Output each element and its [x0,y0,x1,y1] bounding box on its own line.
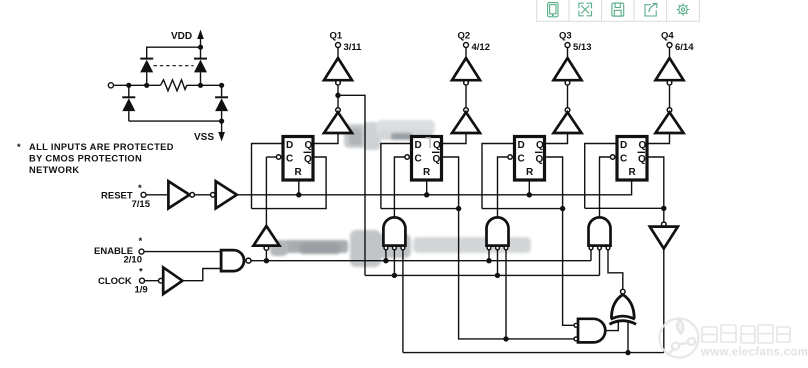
toolbar icon: settings gear [677,3,690,16]
inverter U3 (clock, input bubble) [159,278,164,283]
wire: between reset inverters [195,194,211,196]
wire: FF4 C input from AND3 [600,157,611,218]
svg-text:5/13: 5/13 [573,42,592,53]
svg-text:Q: Q [304,154,312,165]
node: rail junctions [126,83,224,88]
wire: FF3 R pin [528,182,530,195]
NAND gate U4 (clock/enable) [221,250,244,271]
AND gate G4 (horizontal, stage 4 logic) [574,319,605,343]
svg-text:Q: Q [433,140,441,151]
wire: FF3 Q output [546,133,568,144]
inverter U5 (clock to C1, points up) [253,226,279,261]
svg-text:D: D [620,140,627,151]
svg-text:C: C [286,153,293,164]
svg-text:BY CMOS PROTECTION: BY CMOS PROTECTION [29,154,142,164]
wire: CLOCK to inverter [145,280,159,282]
wire: input rail right [187,84,222,86]
wire: G2 input from clock line [488,250,490,261]
wire: FF4 Qbar output down [649,157,664,222]
node: FF3 toggle junction [560,206,565,211]
wire: XNOR lower input to bottom line [627,322,629,353]
svg-text:*: * [138,183,142,194]
flip-flop FF3 [508,137,545,181]
svg-text:1/9: 1/9 [135,285,148,296]
svg-text:*: * [17,142,21,152]
wire: FF1 R pin [298,182,300,195]
wire: ENABLE to NAND [144,251,221,253]
wire: VSS bottom rail [129,120,222,122]
erased watermark smudge lower [270,230,531,267]
wire: FF1 D input [252,144,282,209]
toolbar icon: tablet [548,3,558,17]
diode D4 (lower right) [215,85,228,121]
svg-text:Q1: Q1 [330,31,343,42]
toolbar cells [537,0,700,21]
node: VSS rail junction [219,119,224,124]
wire: FF4 Q output [649,133,670,144]
wire: FF4 D input [585,144,616,209]
output buffer column Q1 [324,31,362,134]
svg-text:Q3: Q3 [559,31,572,42]
wire: U6 output down to bottom line [663,249,665,353]
svg-text:Q: Q [639,140,647,151]
svg-text:R: R [295,167,303,178]
terminal RESET [141,192,146,197]
flip-flop FF4 [610,137,647,181]
svg-text:D: D [415,140,422,151]
svg-text:Q: Q [536,140,544,151]
svg-text:VSS: VSS [194,132,214,143]
svg-text:NETWORK: NETWORK [29,165,79,175]
wire: Q2 line down and across [459,209,574,339]
wire: FF3 toggle Qbar to D [482,157,563,209]
elecfans watermark text [702,325,790,343]
wire: bottom feedback line [403,352,664,354]
svg-text:RESET: RESET [101,190,133,201]
svg-text:C: C [415,153,422,164]
svg-text:D: D [286,140,293,151]
wire: RESET terminal to inverter [146,194,168,196]
inverter U2 (reset buffer 2) [211,193,216,198]
svg-text:C: C [518,153,525,164]
svg-text:CLOCK: CLOCK [98,276,132,287]
wire: G4 output to XNOR [605,320,618,331]
label RESET 7/15 [101,183,151,210]
wire: RESET distribution line [237,182,632,195]
protection network: input terminal [108,83,113,88]
toolbar icon: share/export [645,4,657,17]
node: clock junctions [264,258,492,263]
svg-text:*: * [139,236,143,247]
inverter U1 (reset buffer 1) [168,181,189,208]
svg-text:Q4: Q4 [661,31,674,42]
wire: G1 input from Q1 line [393,250,395,276]
wire: FF3 D input [482,144,513,209]
svg-text:D: D [518,140,525,151]
wire: clock inverter to NAND lower input [182,269,221,281]
label ENABLE 2/10 [94,236,143,265]
wire: FF2 C input from AND1 [394,157,405,218]
diode D2 (upper right) [194,59,207,86]
wire: G1 input from clock line [385,250,387,261]
svg-text:ALL INPUTS ARE PROTECTED: ALL INPUTS ARE PROTECTED [29,142,174,152]
node: Q2 line junction [503,336,508,341]
svg-text:3/11: 3/11 [344,42,363,53]
wire: FF2 Q output [443,133,466,144]
wire: FF1 Q output [315,133,339,144]
node: VDD rail junction [198,45,203,50]
wire: internal clock line [251,260,591,262]
toolbar icon: save floppy [612,3,624,16]
wire: VDD top rail [147,47,201,59]
wire: FF2 toggle Qbar to D [381,157,459,209]
svg-text:2/10: 2/10 [124,254,143,265]
svg-text:C: C [620,153,627,164]
node: FF2 toggle junction [456,206,461,211]
wire: FF4 toggle Qbar to D [585,207,664,209]
wire: Q3bar line down to AND-H [563,209,574,326]
wire: Q1 gating line [365,274,600,276]
svg-text:6/14: 6/14 [675,42,694,53]
AND gate G3 (stage 4 clock gate) [589,217,611,249]
svg-text:7/15: 7/15 [132,199,151,210]
output buffer column Q4 [656,31,695,134]
svg-text:R: R [629,167,637,178]
elecfans watermark logo [660,319,699,358]
erased watermark smudge upper [344,120,435,150]
note text: all inputs protected [17,142,174,175]
output buffer column Q3 [554,31,592,134]
inverter U6 (Q4bar, points down) [650,222,678,249]
wire: Q1 feedback down [338,95,365,275]
node: Q1 feedback tap [335,93,340,98]
output buffer column Q2 [452,31,490,134]
node: bottom line junction to XNOR [625,350,630,355]
svg-text:Q: Q [433,154,441,165]
node: FF4 toggle junction [661,206,666,211]
VSS arrow [221,121,223,133]
wire: FF1 C input [266,156,276,158]
wire: G1 input from bottom feedback line [402,250,404,353]
svg-text:R: R [423,167,431,178]
wire: FF2 R pin [426,182,428,195]
wire: FF1 toggle Qbar to D [252,157,327,209]
terminal CLOCK [140,278,145,283]
svg-text:*: * [139,267,143,278]
AND gate G1 (stage 2 clock gate) [383,217,405,249]
node: Q1 line junctions [392,273,397,278]
toolbar icon: expand arrows [579,3,592,16]
svg-text:Q: Q [536,154,544,165]
svg-text:4/12: 4/12 [472,42,491,53]
diode D1 (upper left) [140,59,153,86]
svg-text:www.elecfans.com: www.elecfans.com [700,347,808,359]
VDD arrow [200,36,202,47]
svg-text:Q: Q [638,154,646,165]
wire: input rail left [114,84,161,86]
wire: dashed link between D1 and D2 [154,65,194,67]
wire: G3 input from Q1 line end [599,250,601,276]
svg-text:R: R [526,167,534,178]
flip-flop FF1 [276,137,313,181]
wire: G2 input from Q2 line [505,250,507,339]
label CLOCK 1/9 [98,267,148,296]
wire: G3 input from clock line end [590,250,592,261]
diode D3 (lower left) [122,85,135,121]
wire: FF2 D input [381,144,410,209]
flip-flop FF2 [405,137,442,181]
wire: FF3 C input from AND2 [498,157,508,218]
svg-text:Q: Q [305,140,313,151]
wire: G3 input from XNOR output [608,250,623,289]
XNOR gate G5 (stage 4 logic) [610,289,637,324]
resistor R (protection) [161,80,187,91]
wire: C1 vertical [265,157,267,226]
AND gate G2 (stage 3 clock gate) [487,217,509,249]
svg-text:VDD: VDD [171,31,192,42]
svg-text:Q2: Q2 [458,31,471,42]
erased watermark artifact in FF2 [426,138,431,148]
wire: G2 input from Q1 line [497,250,499,276]
terminal ENABLE [139,249,144,254]
